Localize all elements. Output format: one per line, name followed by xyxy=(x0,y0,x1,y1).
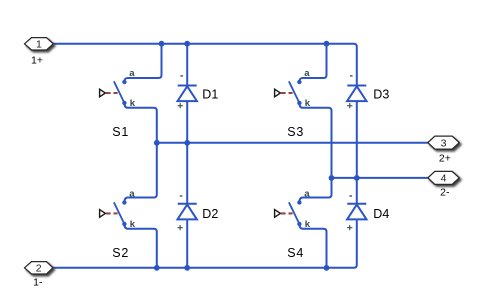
svg-text:a: a xyxy=(129,68,135,79)
wire S3 k through rail 2 to S4 a xyxy=(299,103,331,203)
switch S1 gate dashed line xyxy=(106,92,118,94)
junction bottom rail at S2 k xyxy=(154,265,160,271)
svg-text:S2: S2 xyxy=(112,246,129,260)
polarity plus of D2 xyxy=(178,225,183,230)
port 2 connector xyxy=(25,262,53,275)
port label 2- xyxy=(440,187,450,199)
svg-text:k: k xyxy=(305,219,311,230)
switch S4 xyxy=(289,200,302,226)
polarity plus of D1 xyxy=(178,103,183,108)
svg-text:D3: D3 xyxy=(373,88,389,102)
wire mid rail node 2+ to port 3 xyxy=(157,142,428,144)
svg-text:a: a xyxy=(129,188,135,199)
wire D3 to D4 branch crossing rail 1 xyxy=(356,101,358,204)
polarity plus of D3 xyxy=(347,103,352,108)
svg-text:k: k xyxy=(130,98,136,109)
junction rail 2 at S3 k xyxy=(329,175,335,181)
wire S1 a to top rail xyxy=(124,44,161,82)
port label 1+ xyxy=(31,55,43,67)
wire D1 to D2 branch through rail 1 xyxy=(186,101,188,204)
wire top rail from port 1 to D3 branch xyxy=(53,44,357,86)
polarity minus of D2 xyxy=(180,195,183,197)
svg-text:2-: 2- xyxy=(440,187,450,199)
junction top rail at S1 a xyxy=(159,41,165,47)
svg-text:S4: S4 xyxy=(287,246,304,260)
switch S4 gate triangle xyxy=(275,210,281,218)
label S3 xyxy=(287,125,304,139)
svg-text:4: 4 xyxy=(441,173,447,185)
port label 2+ xyxy=(439,152,451,164)
svg-text:2+: 2+ xyxy=(439,152,451,164)
svg-text:3: 3 xyxy=(441,137,447,149)
label D3 xyxy=(373,88,389,102)
svg-text:2: 2 xyxy=(36,263,42,275)
switch S2 gate dashed line xyxy=(106,212,118,214)
svg-text:a: a xyxy=(304,188,310,199)
junction bottom rail at S4 k xyxy=(324,265,330,271)
pin label a of S4 xyxy=(304,188,310,199)
wire bottom rail from port 2 to D4 branch xyxy=(53,220,357,268)
diode D1 xyxy=(178,86,197,102)
wire mid rail node 2- to port 4 xyxy=(332,177,428,179)
diode D2 xyxy=(178,204,197,220)
diode D3 xyxy=(347,86,366,102)
svg-text:1+: 1+ xyxy=(31,55,43,67)
diode D4 xyxy=(347,204,366,220)
label S4 xyxy=(287,246,304,260)
label D1 xyxy=(202,88,218,102)
switch S4 gate dashed line xyxy=(281,212,293,214)
label D2 xyxy=(202,207,218,221)
junction bottom rail at D2 xyxy=(184,265,190,271)
svg-text:D1: D1 xyxy=(202,88,218,102)
switch S1 xyxy=(114,80,127,105)
svg-text:1-: 1- xyxy=(33,277,43,289)
switch S2 gate triangle xyxy=(100,210,106,218)
wire S1 k through rail 1 to S2 a xyxy=(124,103,156,203)
port label 1- xyxy=(33,277,43,289)
svg-text:1: 1 xyxy=(36,39,42,51)
pin label a of S3 xyxy=(304,68,310,79)
polarity minus of D4 xyxy=(349,195,352,197)
port 1 connector xyxy=(25,38,54,51)
junction top rail at S3 a xyxy=(324,41,330,47)
port 4 connector xyxy=(428,171,460,184)
svg-text:k: k xyxy=(305,98,311,109)
pin label k of S3 xyxy=(305,98,311,109)
switch S3 gate triangle xyxy=(275,89,281,97)
svg-text:D4: D4 xyxy=(373,207,389,221)
wire S2 k to bottom rail xyxy=(124,224,156,268)
pin label a of S1 xyxy=(129,68,135,79)
svg-text:D2: D2 xyxy=(202,207,218,221)
pin label a of S2 xyxy=(129,188,135,199)
label S2 xyxy=(112,246,129,260)
junction rail 2 at D3 xyxy=(354,175,360,181)
switch S3 gate dashed line xyxy=(281,92,293,94)
junction rail 1 at S1 k xyxy=(154,140,160,146)
wire D1 branch top xyxy=(186,44,188,86)
polarity minus of D3 xyxy=(350,75,353,77)
pin label k of S2 xyxy=(130,219,136,230)
wire S4 k to bottom rail xyxy=(299,224,326,268)
port 3 connector xyxy=(428,136,460,149)
pin label k of S1 xyxy=(130,98,136,109)
svg-text:a: a xyxy=(304,68,310,79)
wire D2 branch bottom xyxy=(186,220,188,268)
label S1 xyxy=(112,125,129,139)
switch S2 xyxy=(114,200,127,226)
wire S3 a to top rail xyxy=(299,44,326,82)
svg-text:S1: S1 xyxy=(112,125,129,139)
label D4 xyxy=(373,207,389,221)
polarity plus of D4 xyxy=(347,225,352,230)
pin label k of S4 xyxy=(305,219,311,230)
junction top rail at D1 xyxy=(184,41,190,47)
svg-text:S3: S3 xyxy=(287,125,304,139)
junction rail 1 at D1 xyxy=(184,140,190,146)
switch S1 gate triangle xyxy=(100,89,106,97)
switch S3 xyxy=(289,80,302,105)
polarity minus of D1 xyxy=(180,75,183,77)
svg-text:k: k xyxy=(130,219,136,230)
